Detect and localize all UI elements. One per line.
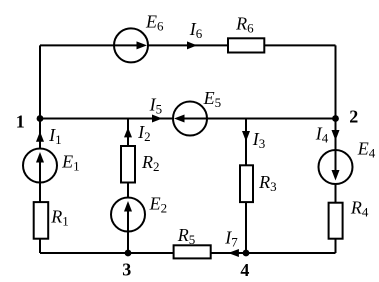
current arrow I5 xyxy=(152,115,162,123)
svg-text:E6: E6 xyxy=(145,11,164,33)
node 1 xyxy=(37,115,44,122)
wire middle xyxy=(40,118,336,120)
wire branch R2 xyxy=(127,119,129,254)
svg-text:I1: I1 xyxy=(48,125,62,147)
resistor R1 xyxy=(34,202,49,239)
svg-text:4: 4 xyxy=(240,260,249,280)
svg-text:E2: E2 xyxy=(149,194,168,216)
svg-text:R2: R2 xyxy=(141,152,160,174)
EMF E6 xyxy=(114,28,148,62)
resistor R2 xyxy=(121,146,135,183)
svg-text:3: 3 xyxy=(122,260,131,280)
current arrow I7 xyxy=(228,249,239,257)
EMF E1 xyxy=(23,149,57,183)
resistor R4 xyxy=(329,203,343,239)
svg-text:E1: E1 xyxy=(61,151,80,173)
svg-text:I5: I5 xyxy=(149,94,163,116)
svg-text:I4: I4 xyxy=(315,124,329,146)
EMF E2 xyxy=(111,198,145,232)
svg-text:1: 1 xyxy=(16,111,25,131)
wire branch R3 xyxy=(245,119,247,254)
svg-text:E5: E5 xyxy=(203,88,222,110)
svg-text:E4: E4 xyxy=(357,138,376,160)
current arrow I6 xyxy=(187,41,197,49)
wire left xyxy=(39,45,41,253)
EMF E4 xyxy=(319,150,353,184)
svg-text:R4: R4 xyxy=(350,198,369,220)
svg-text:I7: I7 xyxy=(224,228,238,250)
current arrow I2 xyxy=(124,127,132,137)
svg-text:I6: I6 xyxy=(189,19,203,41)
node 2 xyxy=(332,115,339,122)
EMF E5 xyxy=(173,102,207,136)
svg-text:R1: R1 xyxy=(50,207,68,229)
svg-text:I3: I3 xyxy=(252,129,266,151)
node 3 xyxy=(125,250,132,257)
wire bottom xyxy=(40,252,336,254)
current arrow I1 xyxy=(36,132,44,142)
wire top xyxy=(40,44,336,46)
svg-text:2: 2 xyxy=(349,107,358,127)
resistor R6 xyxy=(228,38,264,52)
svg-text:R6: R6 xyxy=(235,13,254,35)
node 4 xyxy=(243,250,250,257)
wire right xyxy=(335,45,337,253)
svg-text:R3: R3 xyxy=(258,172,277,194)
current arrow I3 xyxy=(242,131,250,141)
current arrow I4 xyxy=(332,130,340,141)
resistor R5 xyxy=(174,245,211,258)
resistor R3 xyxy=(240,165,253,202)
svg-text:I2: I2 xyxy=(137,122,151,144)
svg-text:R5: R5 xyxy=(177,225,196,247)
